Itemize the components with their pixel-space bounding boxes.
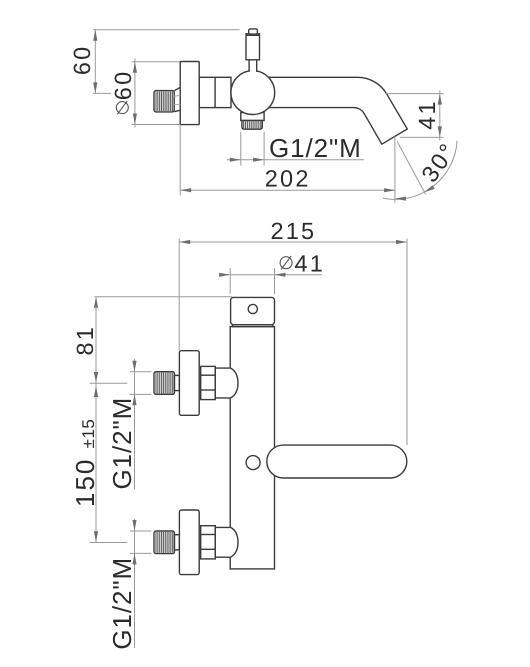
dim phi41 (body diameter) [229,268,231,294]
bottom view: upper neck [175,375,180,390]
top view: wall thread G1/2 [154,91,174,112]
bottom view: lower escutcheon [179,510,199,575]
top view: handle stem [250,60,256,72]
svg-text:81: 81 [72,325,98,356]
dim 30 degrees (spout angle) [397,142,425,195]
top view: wall escutcheon plate [180,62,199,125]
top view: outlet thread G1/2 [242,121,262,130]
bottom view: cap neck [233,325,273,327]
dim 150 +/-15 (inlet spacing) [90,382,128,384]
svg-text:60: 60 [69,45,95,76]
svg-text:60: 60 [110,70,136,101]
svg-text:202: 202 [265,165,311,191]
bottom view: lower neck [175,535,180,550]
top view: handle body [246,34,260,60]
bottom view: upper union nut [201,366,216,399]
dim phi60 (escutcheon diameter) [134,59,136,128]
bottom view: upper dome elbow [215,368,238,398]
bottom view: body tube [230,327,274,569]
bottom view: lower wall thread G1/2 [154,531,175,554]
bottom view: lower union nut [201,526,216,559]
svg-text:215: 215 [270,218,316,244]
bottom view: handle screw [246,456,260,470]
top view: ball valve body [231,71,275,115]
dim G1/2"M upper inlet [134,359,136,490]
svg-text:41: 41 [295,250,326,276]
bottom view: top cap [231,297,275,324]
top view: spout [262,77,407,144]
svg-text:41: 41 [414,99,440,130]
top view: taper cone to plate [174,87,180,91]
bottom view: lower dome elbow [215,527,238,557]
dim G1/2"M lower inlet [134,519,136,648]
bottom view: handle bar [267,445,407,478]
top view: handle cap [249,29,258,34]
dim 60 (handle top to axis) [94,30,96,94]
bottom view: upper wall thread G1/2 [154,372,175,395]
svg-text:G1/2"M: G1/2"M [269,133,362,163]
bottom view: upper escutcheon [179,351,199,416]
dim 41 (spout drop) [385,93,444,95]
svg-text:G1/2"M: G1/2"M [107,397,137,490]
top view: outlet nut below ball [241,113,264,121]
dim 215 (overall projection) [178,239,180,351]
dim G1/2"M outlet thread [240,132,242,166]
top view: body tube between wall plate and ball [199,77,231,107]
svg-text:G1/2"M: G1/2"M [107,557,137,650]
dim 81 (top to upper inlet) [94,296,232,298]
dim 202 (spout reach) [179,125,181,196]
